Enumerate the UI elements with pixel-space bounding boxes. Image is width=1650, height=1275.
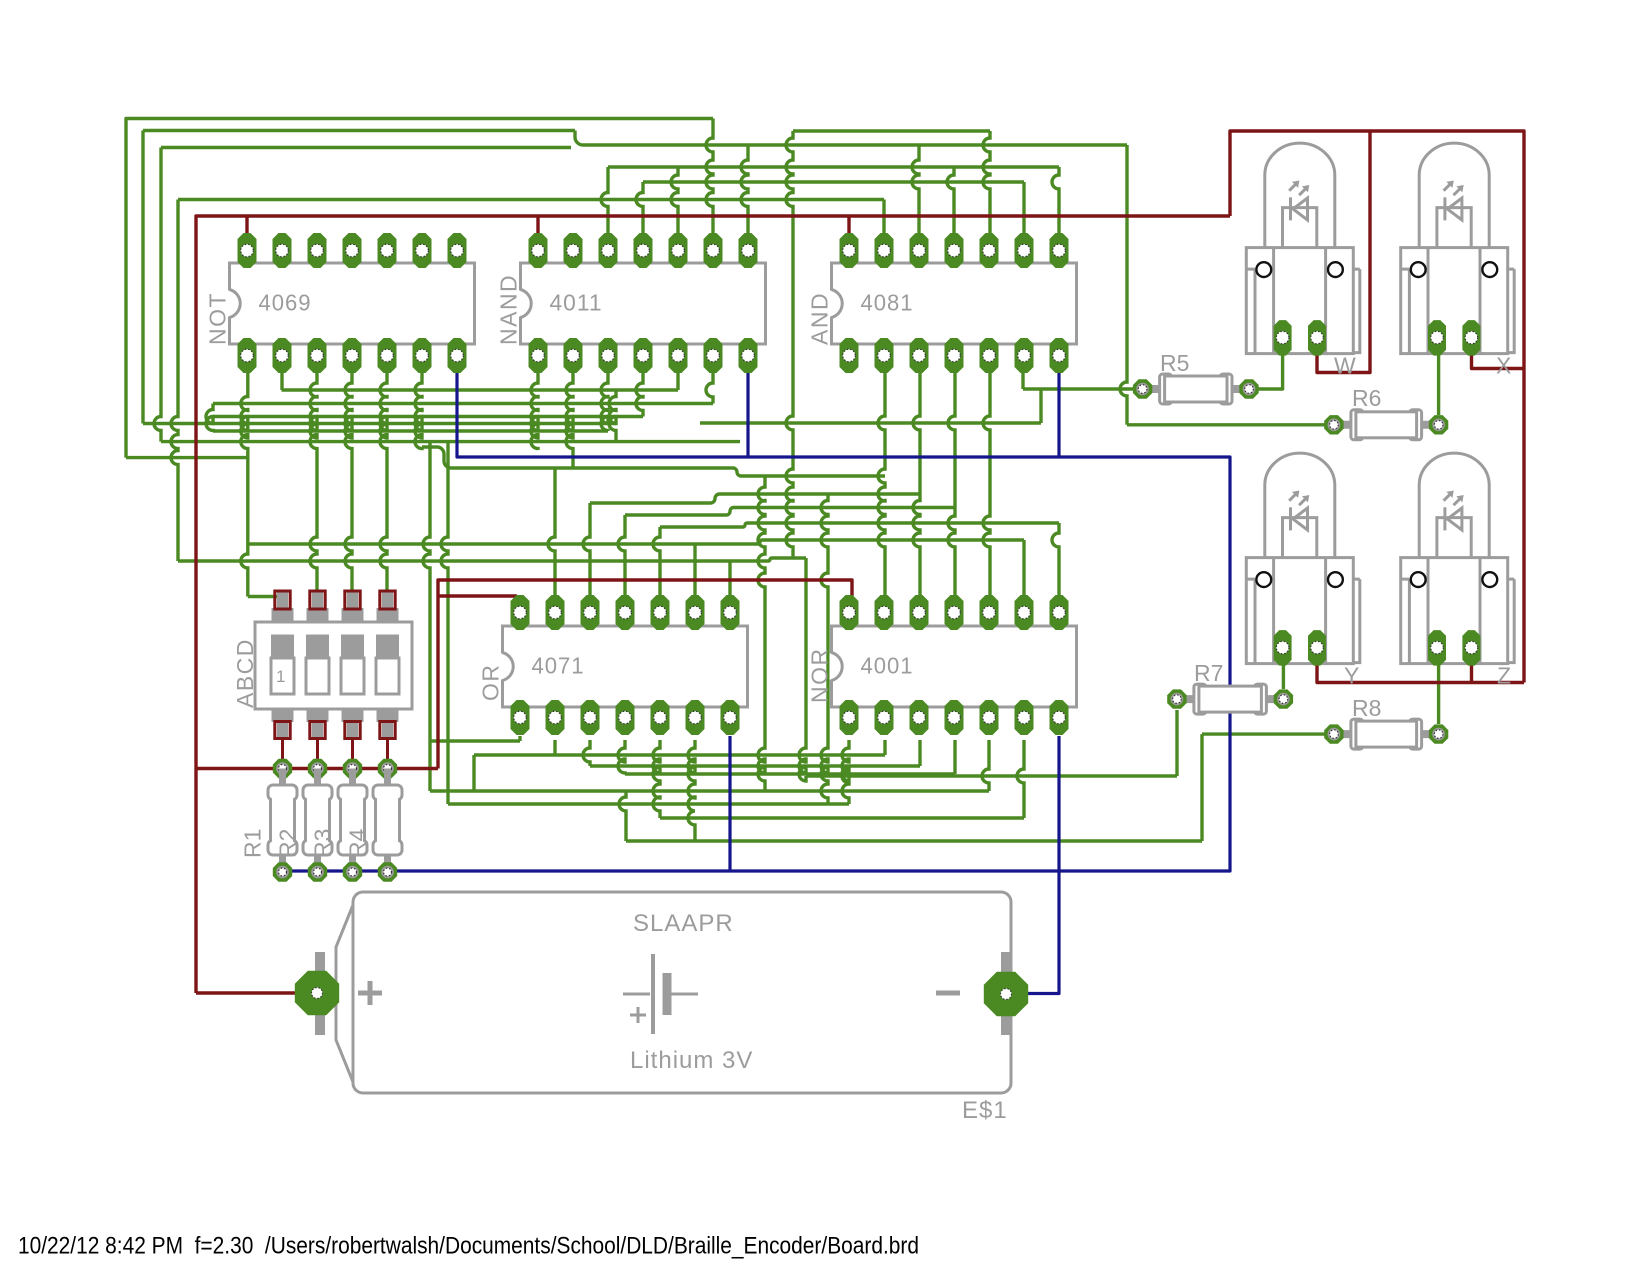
- wire branch: [1039, 389, 1042, 423]
- U1 pin 8 bottom pad: [448, 338, 467, 373]
- U3 pin 2 top pad: [875, 233, 894, 268]
- wire T3 left: [154, 148, 161, 442]
- S1 pad 4 / R4 top pad: [378, 759, 397, 778]
- wire T4: [178, 198, 884, 201]
- U3 pin 10 bottom pad: [980, 338, 999, 373]
- U2 pin 1 top pad: [529, 233, 548, 268]
- U2 pin 13 bottom pad: [564, 338, 583, 373]
- resistor R5: [1143, 350, 1249, 404]
- wire v765: [758, 476, 765, 791]
- wire U4 pin13 drop: [553, 740, 556, 755]
- U3 pin 5 top pad: [980, 233, 999, 268]
- svg-text:10/22/12 8:42 PM f=2.30 /Use: 10/22/12 8:42 PM f=2.30 /Users/robertwal…: [18, 1233, 919, 1260]
- S1 pad 1 / R1 top pad: [273, 759, 292, 778]
- resistor R7: [1177, 660, 1284, 714]
- wire U5 pin14 drop: [842, 740, 849, 804]
- wire T6 to U3 pin6: [1022, 182, 1025, 233]
- wire maroon DIP rail: [196, 767, 438, 770]
- wire to U4 pin4: [618, 515, 625, 595]
- wire to U4 pin5: [653, 527, 660, 595]
- U4 pin 7 top pad: [721, 595, 740, 630]
- wire l5: [248, 540, 1024, 544]
- S1 slider 1: [271, 635, 294, 660]
- R7 pad 2: [1274, 689, 1293, 708]
- wire T1: [126, 119, 713, 458]
- wire T5 to U3 pin7: [1052, 167, 1059, 233]
- wire up to R8: [1200, 734, 1203, 841]
- U1 pin 3 top pad: [308, 233, 327, 268]
- svg-text:Lithium 3V: Lithium 3V: [630, 1047, 753, 1074]
- wire into DIP pin1: [248, 597, 282, 603]
- U1 pin 4 top pad: [343, 233, 362, 268]
- U2 pin 9 bottom pad: [704, 338, 723, 373]
- wire VCC rail maroon: [196, 216, 1230, 993]
- wire T3 to U3 pin5: [983, 131, 990, 233]
- wire to R6 left pad: [1127, 423, 1334, 426]
- R5 pad 1: [1133, 379, 1152, 398]
- wire T2 left: [141, 131, 144, 424]
- svg-text:R1: R1: [240, 829, 266, 858]
- U2 pin 3 top pad: [599, 233, 618, 268]
- wire T4 left: [171, 200, 178, 562]
- wire to U4 pin7: [728, 561, 731, 595]
- wire branch left: [700, 421, 1041, 424]
- wire R5 to LED W: [1249, 352, 1283, 389]
- wire v430: [423, 442, 430, 791]
- R2 bottom pad: [308, 862, 327, 881]
- wire U1 pin12 to DIP pin2: [310, 373, 317, 591]
- wire LED X anode: [1472, 352, 1525, 369]
- U1 pin 14 bottom pad: [238, 338, 257, 373]
- wire to U5 pin6: [1022, 540, 1025, 595]
- wire S1 pin 1 to pad: [281, 739, 284, 769]
- wire down to R6: [1120, 145, 1127, 425]
- wire U3 pin9 drop: [1021, 373, 1024, 389]
- U4 pin 5 top pad: [651, 595, 670, 630]
- U1 pin 10 bottom pad: [378, 338, 397, 373]
- U5 pin 6 top pad: [1015, 595, 1034, 630]
- resistor R4: [345, 769, 403, 873]
- U2 pin 7 top pad: [739, 233, 758, 268]
- wire b1: [474, 753, 885, 756]
- U1 pin 6 top pad: [413, 233, 432, 268]
- wire l4: [660, 523, 1059, 527]
- U2 pin 12 bottom pad: [599, 338, 618, 373]
- svg-text:1: 1: [276, 667, 285, 686]
- svg-text:Z: Z: [1497, 663, 1511, 689]
- U5 pin 3 top pad: [910, 595, 929, 630]
- svg-text:R2: R2: [275, 829, 301, 858]
- svg-text:NAND: NAND: [496, 274, 522, 345]
- U1 4069 body: [205, 263, 475, 345]
- U3 pin 1 top pad: [840, 233, 859, 268]
- svg-text:R7: R7: [1194, 660, 1223, 686]
- wire T6: [643, 180, 1024, 183]
- LED W anode pad: [1308, 320, 1326, 356]
- U2 pin 11 bottom pad: [634, 338, 653, 373]
- wire U2 pin11 drop: [636, 373, 643, 417]
- U1 pin 11 bottom pad: [343, 338, 362, 373]
- U4 pin 1 top pad: [511, 595, 530, 630]
- wire U2 pin13 drop: [566, 373, 573, 468]
- U2 pin 6 top pad: [704, 233, 723, 268]
- U4 pin 14 bottom pad: [511, 700, 530, 735]
- U1 pin 5 top pad: [378, 233, 397, 268]
- U3 pin 9 bottom pad: [1015, 338, 1034, 373]
- svg-text:X: X: [1496, 353, 1511, 379]
- wire T4 to U3 pin2: [882, 200, 885, 234]
- svg-text:R8: R8: [1352, 695, 1381, 721]
- wire m3: [213, 415, 643, 418]
- wire R7 to LED Y: [1282, 661, 1285, 689]
- U3 pin 12 bottom pad: [910, 338, 929, 373]
- LED W cathode pad: [1274, 320, 1292, 356]
- wire T2 jog: [575, 131, 583, 146]
- wire b5: [448, 802, 849, 805]
- U3 pin 8 bottom pad: [1050, 338, 1069, 373]
- U3 pin 13 bottom pad: [875, 338, 894, 373]
- wire m1: [282, 388, 679, 391]
- U2 pin 14 bottom pad: [529, 338, 548, 373]
- svg-text:NOT: NOT: [205, 292, 231, 345]
- wire T6 to U2 pin4: [636, 182, 643, 233]
- U2 pin 5 top pad: [669, 233, 688, 268]
- wire b7 to R8: [626, 839, 1202, 842]
- wire U3 pin7 gnd: [1057, 373, 1060, 457]
- LED W: [1246, 143, 1360, 354]
- R8 pad 2: [1429, 724, 1448, 743]
- wire U5 pin12 drop: [918, 740, 921, 766]
- wire U4 pin7 gnd: [728, 736, 731, 871]
- R8 pad 1: [1324, 724, 1343, 743]
- wire link b4-b7: [619, 791, 626, 841]
- U4 pin 6 top pad: [686, 595, 705, 630]
- wire v828: [821, 494, 828, 804]
- wire U4 pin14 drop: [518, 736, 521, 741]
- wire R6 to LED X: [1437, 352, 1440, 415]
- wire to U1 pin1: [245, 216, 248, 233]
- svg-text:ABCD: ABCD: [232, 638, 258, 708]
- wire S1 pin 2 to pad: [316, 739, 319, 769]
- wire U5 pin11 drop: [953, 740, 956, 774]
- svg-text:Y: Y: [1344, 663, 1359, 689]
- wire S1 pin 4 to pad: [386, 739, 389, 769]
- wire maroon to U4 pin1: [438, 596, 520, 606]
- U1 pin 13 bottom pad: [273, 338, 292, 373]
- wire U3 pin13 to U5 pin2: [878, 373, 885, 595]
- wire l1: [422, 447, 885, 476]
- battery E$1: [336, 892, 1011, 1124]
- wire b3: [625, 772, 955, 775]
- wire R8 to LED Z: [1437, 661, 1440, 724]
- wire to U1 pin14 col: [126, 456, 248, 459]
- R1 bottom pad: [273, 862, 292, 881]
- wire T2: [143, 129, 575, 132]
- wire mid bus B: [143, 422, 616, 425]
- wire l2: [590, 494, 920, 503]
- wire b6: [660, 816, 1024, 819]
- U5 pin 7 top pad: [1050, 595, 1069, 630]
- U5 pin 12 bottom pad: [910, 700, 929, 735]
- wire U4 pin12 drop: [583, 740, 590, 766]
- wire battery minus gnd: [1013, 736, 1059, 994]
- svg-text:SLAAPR: SLAAPR: [633, 910, 734, 937]
- U3 pin 7 top pad: [1050, 233, 1069, 268]
- S1 bottom pin 3: [342, 701, 364, 722]
- battery minus pad: [984, 952, 1028, 1035]
- wire row 561: [178, 558, 806, 561]
- resistor R8: [1334, 695, 1439, 749]
- wire R7 left pad drop: [1175, 710, 1178, 776]
- svg-text:NOR: NOR: [807, 647, 833, 703]
- S1 top pin 3: [342, 608, 364, 629]
- S1 body: [255, 622, 412, 709]
- U4 pin 9 bottom pad: [686, 700, 705, 735]
- wire U5 pin10 drop: [982, 740, 989, 791]
- wire U4 pin10 drop: [653, 740, 660, 818]
- svg-text:4011: 4011: [550, 290, 603, 316]
- R3 bottom pad: [343, 862, 362, 881]
- wire to U3 pin3: [912, 145, 919, 233]
- wire to U2 pin7: [741, 145, 748, 233]
- resistor R6: [1334, 385, 1439, 440]
- U2 pin 4 top pad: [634, 233, 653, 268]
- U5 pin 10 bottom pad: [980, 700, 999, 735]
- wire U2 pin9 drop: [706, 373, 713, 404]
- wire U1 pin11 to DIP pin3: [345, 373, 352, 591]
- wire GND bus blue: [283, 373, 1231, 871]
- U3 pin 14 bottom pad: [840, 338, 859, 373]
- svg-text:OR: OR: [478, 664, 504, 702]
- wire U3 pin12 to U5 pin3: [913, 373, 920, 595]
- LED Z: [1401, 453, 1515, 663]
- wire U1 pin9 drop: [415, 373, 422, 449]
- wire S1 pin 3 to pad: [351, 739, 354, 769]
- S1 top pin 4: [377, 608, 399, 629]
- wire to battery plus: [196, 991, 296, 994]
- LED X cathode pad: [1428, 320, 1446, 356]
- U4 pin 4 top pad: [616, 595, 635, 630]
- U1 pin 7 top pad: [448, 233, 467, 268]
- wire U3 pin11 to U5 pin4: [948, 373, 955, 595]
- U5 4001 body: [807, 626, 1077, 707]
- wire U4 pin11 drop: [618, 740, 625, 774]
- S1 slider 3: [341, 635, 364, 660]
- R5 pad 2: [1239, 379, 1258, 398]
- U5 pin 8 bottom pad: [1050, 700, 1069, 735]
- wire LED W anode: [1317, 131, 1370, 373]
- U3 pin 11 bottom pad: [945, 338, 964, 373]
- U5 pin 4 top pad: [945, 595, 964, 630]
- wire T1 to U2 pin6: [706, 119, 713, 234]
- wire to U4 pin3: [583, 503, 590, 595]
- svg-text:W: W: [1334, 353, 1356, 379]
- wire U5 pin13 drop: [883, 740, 886, 755]
- S1 slider 4: [376, 635, 399, 660]
- svg-text:R5: R5: [1160, 350, 1189, 376]
- wire m4: [213, 429, 608, 432]
- wire T3: [161, 146, 571, 149]
- U3 4081 body: [807, 263, 1077, 345]
- wire v474: [472, 755, 475, 791]
- R7 pad 1: [1167, 689, 1186, 708]
- wire to U3 pin1: [847, 216, 850, 233]
- resistor R3: [310, 769, 368, 873]
- S1 slider 2: [306, 635, 329, 660]
- wire b2: [590, 764, 920, 767]
- resistor R1: [240, 769, 298, 873]
- R6 pad 2: [1429, 415, 1448, 434]
- U4 pin 8 bottom pad: [721, 700, 740, 735]
- wire to U5 pin7: [1052, 523, 1059, 595]
- U4 pin 11 bottom pad: [616, 700, 635, 735]
- U5 pin 2 top pad: [875, 595, 894, 630]
- LED Z cathode pad: [1428, 630, 1446, 666]
- DIP switch S1: [232, 591, 412, 769]
- S1 pad 3 / R3 top pad: [343, 759, 362, 778]
- wire to R5 left pad: [1023, 387, 1143, 390]
- LED X anode pad: [1462, 320, 1480, 356]
- U5 pin 1 top pad: [840, 595, 859, 630]
- wire link: [206, 404, 213, 432]
- svg-text:4069: 4069: [259, 290, 312, 316]
- LED X: [1401, 143, 1515, 354]
- wire LED Y anode: [1317, 661, 1524, 683]
- U3 pin 6 top pad: [1015, 233, 1034, 268]
- U1 pin 2 top pad: [273, 233, 292, 268]
- wire U2 pin7 gnd: [746, 373, 749, 457]
- svg-text:R3: R3: [310, 829, 336, 858]
- U3 pin 4 top pad: [945, 233, 964, 268]
- svg-text:E$1: E$1: [962, 1097, 1008, 1124]
- svg-text:4001: 4001: [861, 653, 914, 679]
- LED Y anode pad: [1308, 630, 1326, 666]
- wire to R7: [799, 558, 806, 781]
- wire U2 pin12 drop: [601, 373, 608, 431]
- wire U1 pin14 drop: [241, 373, 248, 597]
- svg-text:4081: 4081: [861, 290, 914, 316]
- wire U1 pin10 to DIP pin4: [380, 373, 387, 591]
- wire U4 pin9 drop: [688, 740, 695, 841]
- S1 top pin 2: [307, 608, 329, 629]
- wire m2: [213, 402, 713, 405]
- LED Y: [1246, 453, 1360, 663]
- svg-text:4071: 4071: [532, 653, 585, 679]
- U5 pin 11 bottom pad: [945, 700, 964, 735]
- wire mid bus C: [161, 440, 740, 443]
- wire U2 pin10 drop: [676, 373, 679, 390]
- wire to R7 left pad: [806, 774, 1177, 777]
- svg-text:R6: R6: [1352, 385, 1381, 411]
- U1 pin 12 bottom pad: [308, 338, 327, 373]
- wire long vertical: [786, 131, 793, 558]
- U5 pin 5 top pad: [980, 595, 999, 630]
- S1 bottom pin 1: [272, 701, 294, 722]
- wire U4 pin14 link: [430, 739, 520, 742]
- wire stub: [609, 390, 616, 442]
- wire to U4 pin6: [693, 544, 696, 595]
- svg-text:R4: R4: [345, 828, 371, 858]
- wire l3: [625, 508, 955, 516]
- wire down right of DIP: [441, 442, 448, 804]
- U2 pin 8 bottom pad: [739, 338, 758, 373]
- U1 pin 1 top pad: [238, 233, 257, 268]
- resistor R2: [275, 769, 333, 873]
- wire T5: [608, 165, 1059, 168]
- U4 pin 2 top pad: [546, 595, 565, 630]
- svg-text:AND: AND: [807, 292, 833, 345]
- LED Z anode pad: [1462, 630, 1480, 666]
- wire right bus top: [793, 129, 990, 132]
- R4 bottom pad: [378, 862, 397, 881]
- U4 pin 3 top pad: [581, 595, 600, 630]
- wire U3 pin10 to U5 pin5: [983, 373, 990, 595]
- U4 pin 12 bottom pad: [581, 700, 600, 735]
- S1 top pin 1: [272, 608, 294, 629]
- U2 pin 10 bottom pad: [669, 338, 688, 373]
- wire maroon right border: [1230, 131, 1524, 683]
- wire to U2 pin5: [671, 167, 678, 233]
- wire U1 pin13 drop: [280, 373, 283, 390]
- U1 pin 9 bottom pad: [413, 338, 432, 373]
- U5 pin 9 bottom pad: [1015, 700, 1034, 735]
- wire LED Z anode: [1470, 661, 1473, 683]
- S1 pad 2 / R2 top pad: [308, 759, 327, 778]
- U2 pin 2 top pad: [564, 233, 583, 268]
- wire U2 pin14 drop: [531, 373, 538, 450]
- U5 pin 14 bottom pad: [840, 700, 859, 735]
- U4 4071 body: [478, 626, 748, 707]
- S1 bottom pin 2: [307, 701, 329, 722]
- wire T2b: [583, 143, 1127, 146]
- wire to U3 pin4: [947, 167, 954, 233]
- wire maroon to U5 pin1: [438, 580, 852, 769]
- wire to R8 left pad: [1202, 732, 1334, 735]
- U4 pin 10 bottom pad: [651, 700, 670, 735]
- U5 pin 13 bottom pad: [875, 700, 894, 735]
- wire U5 pin9 drop: [1017, 740, 1024, 818]
- wire T5 to U2 pin3: [601, 167, 608, 233]
- U2 4011 body: [496, 263, 766, 345]
- R6 pad 1: [1324, 415, 1343, 434]
- wire to U4 pin2: [548, 468, 555, 595]
- U3 pin 3 top pad: [910, 233, 929, 268]
- U4 pin 13 bottom pad: [546, 700, 565, 735]
- wire to U2 pin1: [536, 216, 539, 233]
- wire b4: [430, 789, 989, 792]
- LED Y cathode pad: [1274, 630, 1292, 666]
- battery plus pad: [295, 952, 339, 1035]
- S1 bottom pin 4: [377, 701, 399, 722]
